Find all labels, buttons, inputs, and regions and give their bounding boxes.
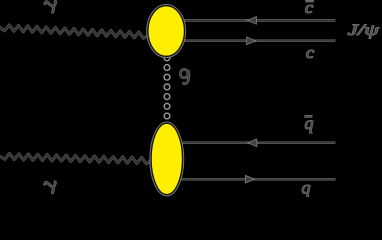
label g (gluon) [180,69,189,83]
svg-text:c: c [306,43,314,62]
label gamma top [45,1,56,12]
gluon coil g [164,55,170,119]
fermion line c (arrow pointing right) [182,37,336,45]
label qbar with overbar [304,113,313,133]
fermion line cbar (top, arrow pointing left) [181,17,336,25]
label cbar with overbar [305,0,314,17]
blob top (yellow ellipse vertex) [147,5,186,58]
svg-text:c: c [305,0,313,17]
svg-text:q: q [302,178,311,197]
photon gamma1 (top incoming wavy line) [0,25,148,38]
fermion line qbar (arrow pointing left) [181,139,336,147]
fermion line q (arrow pointing right) [180,175,336,183]
photon gamma2 (bottom incoming wavy line) [0,154,151,164]
blob bottom (yellow ellipse vertex) [150,122,184,196]
svg-text:J/ψ: J/ψ [348,22,380,40]
label gamma bottom [45,182,56,193]
